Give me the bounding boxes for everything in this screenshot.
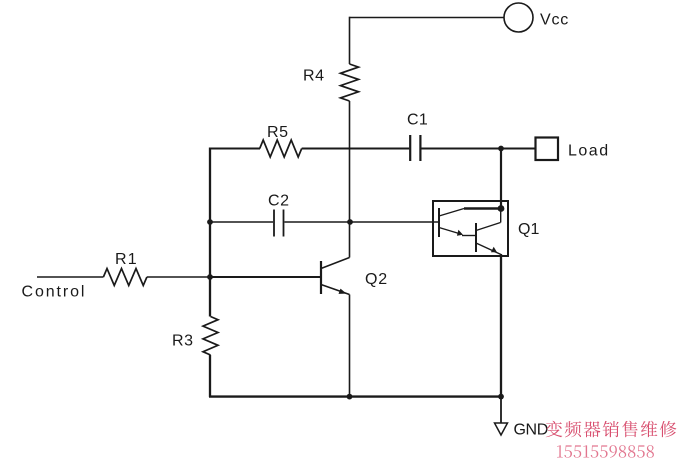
- wire Control lead: [37, 276, 103, 278]
- wire right vertical upper: [500, 149, 502, 209]
- load box: [536, 138, 559, 161]
- wire R4 bottom to Q2 collector (center vertical): [349, 101, 351, 258]
- node C2 center junction: [347, 219, 353, 225]
- svg-text:Q1: Q1: [518, 221, 539, 238]
- svg-text:Q2: Q2: [365, 271, 388, 288]
- wire right vertical lower: [500, 254, 502, 397]
- node bottom right junction: [498, 394, 504, 400]
- svg-text:R3: R3: [172, 333, 194, 350]
- wire ground lead: [500, 397, 502, 423]
- svg-text:GND: GND: [514, 422, 548, 439]
- svg-text:Load: Load: [568, 143, 610, 160]
- wire node to Q2 base: [210, 276, 321, 278]
- wire main horizontal left segment: [209, 148, 260, 150]
- wire C1 to Load: [421, 148, 535, 150]
- wire bottom: [209, 395, 502, 397]
- svg-text:R5: R5: [267, 124, 289, 141]
- wire R1 to node: [147, 276, 210, 278]
- svg-text:C2: C2: [268, 193, 290, 210]
- wire C2 line left segment: [210, 221, 273, 223]
- wire Q2 emitter down: [349, 295, 351, 397]
- wire C2 to Q1 base: [285, 221, 440, 223]
- wire left vertical lower: [209, 355, 211, 397]
- node base junction: [207, 274, 213, 280]
- svg-text:R1: R1: [115, 251, 138, 268]
- resistor R3: [203, 317, 218, 356]
- wire left vertical upper: [209, 148, 211, 317]
- power Vcc: [504, 3, 533, 32]
- wire Vcc horizontal: [350, 17, 505, 19]
- resistor R5: [260, 140, 302, 157]
- svg-text:Control: Control: [22, 284, 87, 301]
- wire R5 to C1: [302, 148, 410, 150]
- svg-text:C1: C1: [407, 112, 428, 129]
- svg-text:Vcc: Vcc: [540, 12, 569, 29]
- resistor R1: [103, 269, 146, 286]
- wire R4 top lead: [349, 17, 351, 64]
- ground: [495, 423, 508, 435]
- node top-right junction: [498, 146, 504, 152]
- resistor R4: [341, 64, 359, 101]
- svg-text:R4: R4: [303, 68, 325, 85]
- transistor Q2: [321, 258, 350, 295]
- node Q1 collector junction: [498, 205, 505, 212]
- watermark text: [546, 421, 677, 438]
- capacitor C2: [274, 210, 284, 237]
- capacitor C1: [410, 135, 420, 161]
- node C2 left junction: [207, 219, 213, 225]
- transistor Q1 (darlington pair): [433, 201, 508, 256]
- node bottom center junction: [347, 394, 353, 400]
